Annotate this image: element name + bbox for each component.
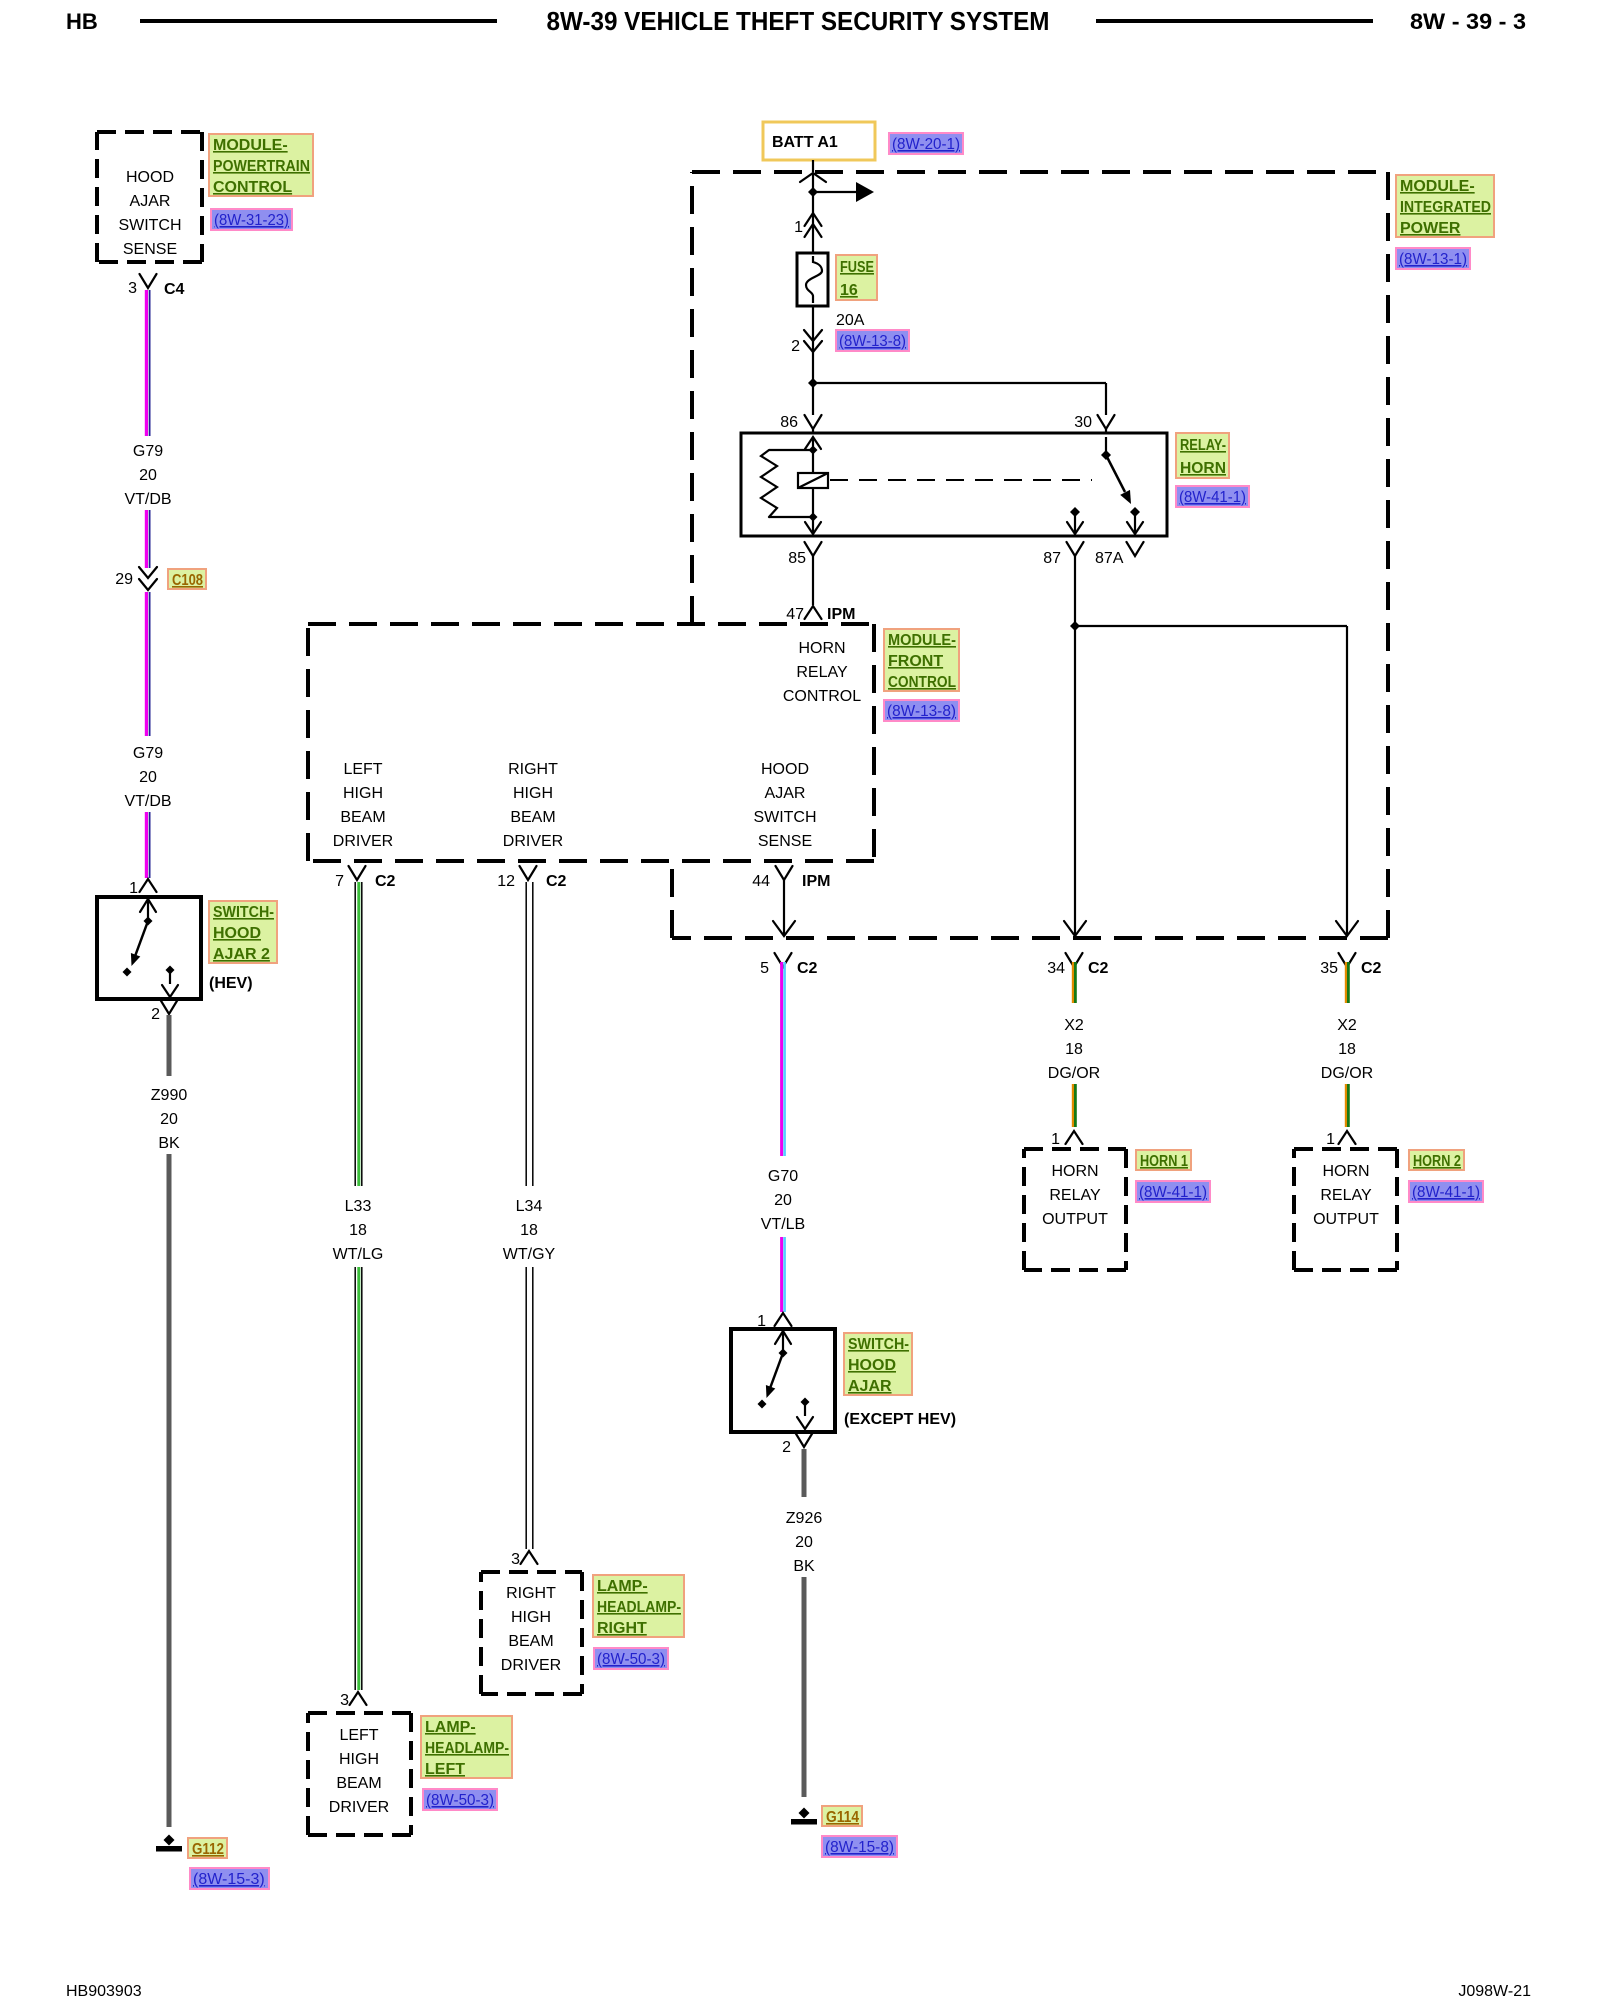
wire G79 continues — [145, 510, 148, 568]
link (8W-31-23) — [211, 209, 292, 230]
svg-text:1: 1 — [794, 219, 803, 236]
svg-text:POWER: POWER — [1400, 220, 1461, 237]
svg-text:5: 5 — [760, 960, 769, 977]
svg-text:16: 16 — [840, 282, 858, 299]
svg-text:HOOD: HOOD — [213, 925, 261, 942]
wire L33 18 WT/LG upper — [354, 882, 356, 1186]
label HORN 2 — [1409, 1150, 1464, 1170]
svg-text:C2: C2 — [1088, 960, 1109, 977]
svg-text:3: 3 — [340, 1692, 349, 1709]
svg-text:X2: X2 — [1337, 1017, 1357, 1034]
svg-text:BEAM: BEAM — [508, 1633, 553, 1650]
link (8W-41-1) horn 2 — [1409, 1181, 1483, 1202]
svg-text:HB903903: HB903903 — [66, 1983, 142, 2000]
svg-text:20: 20 — [139, 467, 157, 484]
svg-text:G79: G79 — [133, 443, 163, 460]
svg-text:(8W-13-1): (8W-13-1) — [1399, 251, 1467, 268]
svg-text:CONTROL: CONTROL — [783, 688, 861, 705]
fuse F16 — [797, 253, 828, 306]
relay pin 87A connector — [1127, 542, 1144, 556]
wire X2 18 DG/OR second upper — [1345, 962, 1347, 1003]
label SWITCH-HOOD AJAR 2 — [209, 901, 277, 963]
svg-text:47: 47 — [786, 606, 804, 623]
link (8W-13-8) at fuse — [836, 330, 909, 351]
wire Z926 20 BK upper — [802, 1449, 807, 1497]
wire Z990 lower — [167, 1154, 172, 1827]
wire X2 second lower — [1345, 1084, 1347, 1127]
svg-text:WT/GY: WT/GY — [503, 1246, 556, 1263]
wire branch to pin 35 side — [1075, 625, 1347, 627]
svg-text:C2: C2 — [375, 873, 396, 890]
svg-text:Z990: Z990 — [151, 1087, 188, 1104]
wire G79 20 VT/DB upper segment — [145, 290, 148, 436]
svg-text:G112: G112 — [192, 1841, 224, 1858]
svg-text:HB: HB — [66, 9, 98, 34]
svg-text:HIGH: HIGH — [343, 785, 383, 802]
svg-text:RELAY-: RELAY- — [1180, 437, 1226, 454]
svg-text:C4: C4 — [164, 281, 185, 298]
svg-text:HORN: HORN — [1051, 1163, 1098, 1180]
relay pin 87A branch — [1130, 507, 1140, 517]
svg-text:(8W-15-8): (8W-15-8) — [825, 1839, 894, 1856]
svg-text:(8W-31-23): (8W-31-23) — [214, 212, 289, 229]
lamp headlamp-right box (RIGHT HIGH BEAM DRIVER) — [481, 1570, 582, 1574]
wire pin 87 down to IPM edge — [1074, 556, 1076, 626]
label HORN 1 — [1136, 1150, 1191, 1170]
label FUSE 16 — [836, 255, 877, 300]
svg-text:85: 85 — [788, 550, 806, 567]
wire L34 18 WT/GY upper — [525, 882, 527, 1186]
svg-text:MODULE-: MODULE- — [888, 632, 956, 649]
svg-text:35: 35 — [1320, 960, 1338, 977]
svg-text:C108: C108 — [172, 572, 203, 589]
svg-text:3: 3 — [128, 280, 137, 297]
svg-text:(HEV): (HEV) — [209, 975, 253, 992]
svg-text:OUTPUT: OUTPUT — [1313, 1211, 1379, 1228]
svg-text:DG/OR: DG/OR — [1321, 1065, 1373, 1082]
svg-text:12: 12 — [497, 873, 515, 890]
wire IPM 44 to bottom edge — [783, 880, 785, 934]
wire L33 lower — [354, 1267, 356, 1690]
svg-text:RIGHT: RIGHT — [506, 1585, 556, 1602]
svg-text:DRIVER: DRIVER — [329, 1799, 389, 1816]
svg-text:3: 3 — [511, 1551, 520, 1568]
svg-text:HIGH: HIGH — [339, 1751, 379, 1768]
svg-text:L34: L34 — [516, 1198, 543, 1215]
svg-text:VT/DB: VT/DB — [124, 793, 171, 810]
svg-text:AJAR: AJAR — [130, 193, 171, 210]
svg-text:34: 34 — [1047, 960, 1065, 977]
svg-text:WT/LG: WT/LG — [333, 1246, 384, 1263]
arrow wire enters module — [800, 173, 826, 182]
svg-text:(8W-20-1): (8W-20-1) — [892, 136, 960, 153]
svg-text:CONTROL: CONTROL — [888, 674, 956, 691]
svg-text:2: 2 — [791, 338, 800, 355]
link (8W-13-1) — [1396, 248, 1470, 269]
link (8W-20-1) — [889, 133, 963, 154]
wire junction to relay pins 86 and 30 — [808, 378, 818, 388]
svg-text:MODULE-: MODULE- — [213, 137, 288, 154]
link (8W-50-3) left lamp — [423, 1789, 497, 1810]
svg-text:SWITCH-: SWITCH- — [213, 904, 274, 921]
svg-text:18: 18 — [1338, 1041, 1356, 1058]
ground G112 — [164, 1835, 175, 1846]
svg-text:FRONT: FRONT — [888, 653, 943, 670]
svg-text:Z926: Z926 — [786, 1510, 823, 1527]
svg-text:DG/OR: DG/OR — [1048, 1065, 1100, 1082]
svg-text:BK: BK — [793, 1558, 815, 1575]
wire from BATT A1 — [812, 160, 814, 172]
svg-text:SWITCH-: SWITCH- — [848, 1336, 909, 1353]
relay pin 87 branch — [1070, 507, 1080, 517]
wire G79 continues 2 — [145, 812, 148, 878]
relay coil branch — [805, 437, 821, 449]
svg-text:C2: C2 — [797, 960, 818, 977]
svg-text:LEFT: LEFT — [339, 1727, 378, 1744]
svg-text:INTEGRATED: INTEGRATED — [1400, 199, 1491, 216]
svg-text:J098W-21: J098W-21 — [1458, 1983, 1531, 2000]
svg-text:20: 20 — [795, 1534, 813, 1551]
svg-text:20A: 20A — [836, 312, 865, 329]
wire Z926 lower — [802, 1577, 807, 1797]
svg-text:LEFT: LEFT — [425, 1761, 465, 1778]
label SWITCH-HOOD AJAR — [844, 1333, 912, 1395]
svg-text:LAMP-: LAMP- — [425, 1719, 476, 1736]
connector BATT A1 — [763, 122, 875, 160]
svg-text:7: 7 — [335, 873, 344, 890]
wire G79 20 VT/DB lower segment — [145, 592, 148, 736]
svg-text:DRIVER: DRIVER — [503, 833, 563, 850]
svg-text:29: 29 — [115, 571, 133, 588]
svg-text:G114: G114 — [826, 1809, 859, 1826]
svg-text:(8W-13-8): (8W-13-8) — [887, 703, 956, 720]
svg-text:HOOD: HOOD — [848, 1357, 896, 1374]
svg-text:(8W-50-3): (8W-50-3) — [597, 1651, 665, 1668]
svg-text:LAMP-: LAMP- — [597, 1578, 648, 1595]
svg-text:8W-39 VEHICLE THEFT SECURITY S: 8W-39 VEHICLE THEFT SECURITY SYSTEM — [547, 6, 1050, 36]
svg-text:MODULE-: MODULE- — [1400, 178, 1475, 195]
svg-text:G79: G79 — [133, 745, 163, 762]
svg-text:18: 18 — [520, 1222, 538, 1239]
module integrated-power box outline — [692, 170, 1388, 174]
svg-text:BEAM: BEAM — [336, 1775, 381, 1792]
svg-text:20: 20 — [160, 1111, 178, 1128]
svg-text:18: 18 — [1065, 1041, 1083, 1058]
svg-text:HORN: HORN — [1322, 1163, 1369, 1180]
svg-text:DRIVER: DRIVER — [501, 1657, 561, 1674]
link (8W-15-3) — [190, 1868, 269, 1889]
link (8W-13-8) at front control — [884, 700, 959, 721]
svg-text:SENSE: SENSE — [758, 833, 812, 850]
svg-text:SENSE: SENSE — [123, 241, 177, 258]
svg-text:RELAY: RELAY — [1049, 1187, 1101, 1204]
wire X2 18 DG/OR first upper — [1072, 962, 1074, 1003]
svg-text:OUTPUT: OUTPUT — [1042, 1211, 1108, 1228]
svg-text:44: 44 — [752, 873, 770, 890]
svg-text:HEADLAMP-: HEADLAMP- — [597, 1599, 681, 1616]
relay coil — [798, 473, 828, 488]
svg-text:(8W-41-1): (8W-41-1) — [1412, 1184, 1480, 1201]
svg-text:(EXCEPT HEV): (EXCEPT HEV) — [844, 1411, 956, 1428]
svg-text:87A: 87A — [1095, 550, 1124, 567]
lamp headlamp-left box (LEFT HIGH BEAM DRIVER) — [308, 1711, 411, 1715]
svg-text:(8W-50-3): (8W-50-3) — [426, 1792, 494, 1809]
wire Z990 20 BK upper — [167, 1015, 172, 1076]
horn relay output box 2 — [1294, 1147, 1397, 1151]
svg-text:86: 86 — [780, 414, 798, 431]
svg-text:30: 30 — [1074, 414, 1092, 431]
svg-text:CONTROL: CONTROL — [213, 179, 292, 196]
link (8W-41-1) horn 1 — [1136, 1181, 1210, 1202]
link (8W-50-3) right lamp — [594, 1648, 668, 1669]
svg-text:BK: BK — [158, 1135, 180, 1152]
svg-text:(8W-13-8): (8W-13-8) — [839, 333, 906, 350]
svg-text:VT/DB: VT/DB — [124, 491, 171, 508]
svg-text:HORN: HORN — [798, 640, 845, 657]
svg-text:20: 20 — [774, 1192, 792, 1209]
svg-text:VT/LB: VT/LB — [761, 1216, 805, 1233]
svg-text:(8W-41-1): (8W-41-1) — [1179, 489, 1246, 506]
svg-text:(8W-15-3): (8W-15-3) — [193, 1871, 265, 1888]
switch hood ajar 2 (HEV) — [97, 897, 201, 999]
svg-text:RELAY: RELAY — [1320, 1187, 1372, 1204]
svg-text:L33: L33 — [345, 1198, 372, 1215]
inline connector pin 2 below fuse — [812, 306, 814, 383]
svg-text:2: 2 — [151, 1006, 160, 1023]
svg-text:C2: C2 — [1361, 960, 1382, 977]
svg-text:AJAR 2: AJAR 2 — [213, 946, 270, 963]
svg-text:IPM: IPM — [827, 606, 855, 623]
svg-text:AJAR: AJAR — [765, 785, 806, 802]
svg-text:HIGH: HIGH — [511, 1609, 551, 1626]
svg-text:1: 1 — [129, 880, 138, 897]
svg-text:POWERTRAIN: POWERTRAIN — [213, 158, 310, 175]
relay resistor — [769, 449, 813, 451]
module front-control box — [308, 622, 874, 626]
svg-text:HIGH: HIGH — [513, 785, 553, 802]
svg-text:RIGHT: RIGHT — [508, 761, 558, 778]
svg-text:RELAY: RELAY — [796, 664, 848, 681]
svg-text:LEFT: LEFT — [343, 761, 382, 778]
svg-text:AJAR: AJAR — [848, 1378, 892, 1395]
svg-text:8W - 39 - 3: 8W - 39 - 3 — [1410, 9, 1526, 34]
svg-text:X2: X2 — [1064, 1017, 1084, 1034]
label MODULE-POWERTRAIN CONTROL — [209, 134, 313, 196]
svg-text:FUSE: FUSE — [840, 259, 874, 276]
svg-text:87: 87 — [1043, 550, 1061, 567]
wire X2 first lower — [1072, 1084, 1074, 1127]
relay switch arm pin 30 — [1105, 437, 1107, 455]
svg-text:SWITCH: SWITCH — [118, 217, 181, 234]
svg-text:HOOD: HOOD — [126, 169, 174, 186]
wire L34 lower — [525, 1267, 527, 1549]
svg-text:2: 2 — [782, 1439, 791, 1456]
relay mechanical link — [830, 479, 1092, 481]
svg-text:SWITCH: SWITCH — [753, 809, 816, 826]
svg-text:RIGHT: RIGHT — [597, 1620, 647, 1637]
label LAMP-HEADLAMP-RIGHT — [593, 1575, 684, 1637]
svg-text:HORN 1: HORN 1 — [1140, 1153, 1188, 1170]
horn relay output box 1 — [1024, 1147, 1126, 1151]
junction to page-continuation arrow — [808, 187, 818, 197]
wire G70 20 VT/LB upper — [780, 962, 783, 1156]
svg-text:1: 1 — [1326, 1131, 1335, 1148]
svg-text:18: 18 — [349, 1222, 367, 1239]
svg-text:(8W-41-1): (8W-41-1) — [1139, 1184, 1207, 1201]
switch hood ajar (EXCEPT HEV) — [731, 1329, 835, 1432]
svg-text:1: 1 — [1051, 1131, 1060, 1148]
link (8W-41-1) at relay — [1176, 486, 1249, 507]
module powertrain-control box (HOOD AJAR SWITCH SENSE) — [97, 130, 202, 134]
svg-text:G70: G70 — [768, 1168, 798, 1185]
svg-text:BEAM: BEAM — [340, 809, 385, 826]
relay-horn box — [741, 433, 1167, 536]
svg-text:HOOD: HOOD — [761, 761, 809, 778]
label RELAY-HORN — [1176, 433, 1229, 478]
wire relay 85 to IPM 47 — [812, 556, 814, 605]
svg-text:C2: C2 — [546, 873, 567, 890]
svg-text:BATT A1: BATT A1 — [772, 134, 838, 151]
relay bottom arrow pin 85 — [805, 522, 821, 534]
ground G114 — [799, 1808, 810, 1819]
svg-text:IPM: IPM — [802, 873, 830, 890]
svg-text:BEAM: BEAM — [510, 809, 555, 826]
wire G70 lower — [780, 1237, 783, 1312]
svg-text:HORN 2: HORN 2 — [1413, 1153, 1461, 1170]
link (8W-15-8) — [822, 1836, 897, 1857]
label MODULE-INTEGRATED POWER — [1396, 175, 1494, 237]
label LAMP-HEADLAMP-LEFT — [421, 1716, 512, 1778]
svg-text:DRIVER: DRIVER — [333, 833, 393, 850]
svg-text:HORN: HORN — [1180, 460, 1226, 477]
label MODULE-FRONT CONTROL — [884, 629, 959, 691]
svg-text:HEADLAMP-: HEADLAMP- — [425, 1740, 509, 1757]
svg-text:20: 20 — [139, 769, 157, 786]
